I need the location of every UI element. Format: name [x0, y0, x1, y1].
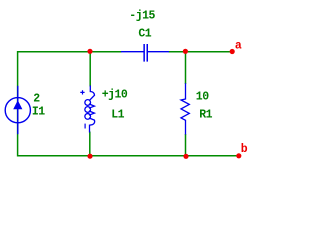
svg-text:2: 2	[33, 93, 40, 106]
wire left rail	[17, 51, 19, 157]
svg-text:-j15: -j15	[129, 10, 155, 23]
inductor L1 bottom hook and lead	[89, 118, 95, 133]
wire inductor branch top	[89, 51, 91, 87]
svg-text:I1: I1	[32, 106, 45, 119]
wire bottom rail	[17, 155, 239, 157]
junction dot top inductor node	[87, 49, 92, 54]
svg-text:C1: C1	[138, 27, 151, 40]
svg-text:L1: L1	[111, 108, 124, 121]
terminal dot node b	[236, 153, 241, 158]
capacitor C1 right lead	[148, 51, 169, 53]
inductor L1 loop 3	[85, 114, 91, 120]
svg-text:+j10: +j10	[102, 89, 128, 102]
inductor L1 minus mark	[84, 124, 86, 129]
wire inductor branch bottom	[89, 132, 91, 157]
junction dot bottom inductor node	[87, 154, 92, 159]
terminal dot node a	[230, 49, 235, 54]
capacitor C1 left lead	[121, 51, 144, 53]
svg-text:10: 10	[196, 90, 209, 103]
inductor L1 crossover 2	[89, 111, 95, 115]
inductor L1 loop 1	[85, 100, 91, 106]
current source I1 lead through body	[17, 86, 19, 134]
wire resistor branch bottom	[185, 134, 187, 157]
junction dot top resistor node	[183, 49, 188, 54]
wire top rail left segment	[17, 51, 122, 53]
inductor L1 plus mark	[80, 90, 84, 94]
inductor L1 crossover 1	[89, 104, 95, 108]
wire resistor branch top	[185, 51, 187, 84]
svg-text:R1: R1	[199, 108, 212, 121]
resistor R1 zigzag	[181, 83, 189, 134]
capacitor C1 left plate	[143, 44, 145, 62]
junction dot bottom resistor node	[183, 154, 188, 159]
svg-text:b: b	[241, 143, 248, 156]
wire top rail right segment	[169, 51, 233, 53]
current source I1 arrow	[13, 100, 22, 109]
inductor L1 loop 2	[85, 107, 91, 113]
inductor L1 top lead and hook	[89, 86, 94, 101]
current source I1 circle	[5, 98, 30, 123]
capacitor C1 right plate	[147, 44, 149, 62]
svg-text:a: a	[235, 39, 242, 52]
